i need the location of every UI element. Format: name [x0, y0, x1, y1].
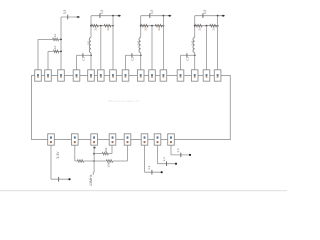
- svg-text:1k: 1k: [53, 33, 57, 37]
- label R8 (group 4): [212, 27, 216, 31]
- pin P23 (bottom row): [168, 134, 175, 145]
- wire top rail V3 (group 3): [141, 15, 170, 17]
- pin P15 (top row): [214, 70, 221, 81]
- wire pin P22 down: [157, 145, 159, 164]
- svg-text:3,3: 3,3: [203, 10, 207, 15]
- wire P21 stub: [145, 171, 163, 173]
- wire pin P16 down: [50, 145, 52, 179]
- label L3 (group 4): [190, 41, 194, 45]
- pin P10 (top row): [149, 70, 156, 81]
- label R5 (group 3): [143, 27, 147, 31]
- svg-text:22: 22: [212, 27, 216, 31]
- pin P18 (bottom row): [91, 134, 98, 145]
- wire node C to R11: [94, 153, 102, 155]
- wire pin P1 to R1: [38, 38, 53, 40]
- label L2 (group 3): [136, 41, 140, 45]
- pin P4 (top row): [73, 70, 80, 81]
- junction top rail / pin wire (group 2): [112, 15, 114, 17]
- junction coil node L3 (group 4): [194, 54, 196, 56]
- pin P9 (top row): [137, 70, 144, 81]
- wire trimmer pin up (group 4): [180, 55, 182, 70]
- wire node B to R10: [94, 160, 106, 162]
- svg-text:22: 22: [94, 27, 98, 31]
- pin P22 (bottom row): [154, 134, 161, 145]
- junction node B: [93, 160, 95, 162]
- svg-text:13MHz: 13MHz: [89, 174, 93, 186]
- label 3.3V V2 (group 2): [100, 10, 104, 15]
- svg-text:C1: C1: [82, 57, 86, 61]
- pin P16 (bottom row): [48, 134, 55, 145]
- crystal stub end: [92, 172, 95, 175]
- junction second rail left (group 3): [140, 25, 142, 27]
- svg-text:C2: C2: [131, 57, 135, 61]
- svg-text:FM stereo radio IC: FM stereo radio IC: [108, 99, 140, 103]
- pin P1 (top row): [35, 70, 42, 81]
- svg-text:C3: C3: [186, 57, 190, 61]
- svg-text:1k: 1k: [53, 45, 57, 49]
- inductor L2 (group 3): [139, 38, 141, 56]
- pin P2 (top row): [45, 70, 52, 81]
- junction R1/node-A: [60, 39, 62, 41]
- wire top rail V2 (group 2): [91, 15, 119, 17]
- supply tick V6: [151, 170, 153, 175]
- wire pin P1 up: [37, 39, 39, 69]
- wire coil to top rail L1 (group 2): [90, 16, 92, 38]
- wire second rail (group 4): [195, 25, 218, 27]
- wire coil to top rail L3 (group 4): [194, 16, 196, 38]
- wire pin to coil L3 (group 4): [194, 55, 196, 70]
- capacitor tick C2 (group 3): [131, 53, 133, 57]
- label R1 10k: [53, 33, 57, 37]
- label R3 (group 2): [94, 27, 98, 31]
- pin P5 (top row): [88, 70, 95, 81]
- wire trimmer pin up (group 3): [125, 55, 127, 70]
- pin P8 (top row): [122, 70, 129, 81]
- wire pin P2 up: [47, 51, 49, 69]
- wire right pin to top rail (group 2): [112, 16, 114, 70]
- junction second rail left (group 4): [194, 25, 196, 27]
- supply tick V2 (group 2): [99, 13, 101, 18]
- pin P20 (bottom row): [124, 134, 131, 145]
- wire trimmer pin up (group 2): [76, 55, 78, 70]
- resistor R3 (group 2): [92, 24, 99, 27]
- IC U1 part-number label: [108, 99, 140, 103]
- label 3.3V V4 (group 4): [203, 10, 207, 15]
- junction second rail middle (group 4): [206, 25, 208, 27]
- pin P17 (bottom row): [72, 134, 79, 145]
- wire trimmer branch (group 3): [126, 54, 141, 56]
- label C3 (group 4): [186, 57, 190, 61]
- label C1 (group 2): [82, 57, 86, 61]
- svg-text:3,3: 3,3: [63, 10, 67, 15]
- supply tick V5: [58, 177, 60, 182]
- svg-text:10k: 10k: [106, 162, 110, 167]
- label R10: [106, 162, 110, 167]
- inductor L1 (group 2): [89, 38, 91, 56]
- wire top rail V4 (group 4): [195, 15, 223, 17]
- junction second rail middle (group 2): [100, 25, 102, 27]
- svg-text:10k: 10k: [104, 147, 108, 152]
- supply tick V7: [166, 161, 168, 166]
- pin P14 (top row): [203, 70, 210, 81]
- label 13MHz: [89, 174, 93, 186]
- wire right pin to top rail (group 4): [217, 16, 219, 70]
- wire pin P18 down: [93, 147, 95, 173]
- endpoint node V4 (group 4): [222, 14, 226, 17]
- svg-text:3,3: 3,3: [100, 10, 104, 15]
- junction top rail / pin wire (group 4): [217, 15, 219, 17]
- svg-text:L1: L1: [86, 41, 90, 45]
- pin P11 (top row): [160, 70, 167, 81]
- pin P3 (top row): [58, 70, 65, 81]
- wire middle pin up (group 4): [206, 26, 208, 70]
- endpoint node V7: [175, 163, 177, 165]
- label V7: [162, 157, 166, 162]
- wire node A to VCC1 stub: [61, 16, 78, 18]
- supply tick V8: [180, 153, 182, 158]
- pin P7 (top row): [110, 70, 117, 81]
- wire pin P21 down: [144, 145, 146, 172]
- wire pin P2 to R2: [48, 50, 53, 52]
- wire pin P3 to node A: [60, 17, 62, 70]
- resistor R11: [102, 152, 108, 155]
- svg-text:L3: L3: [190, 41, 194, 45]
- junction coil node L2 (group 3): [140, 54, 142, 56]
- wire pin P23 down: [170, 145, 172, 155]
- svg-text:3,3: 3,3: [176, 148, 180, 153]
- resistor R2: [53, 50, 58, 53]
- wire R1 to node A: [59, 38, 61, 40]
- label 3.3V (VCC1): [63, 10, 67, 15]
- supply tick V4 (group 4): [202, 13, 204, 18]
- resistor R1: [53, 38, 59, 41]
- pin P19 (bottom row): [109, 134, 116, 145]
- label C2 (group 3): [131, 57, 135, 61]
- label R6 (group 3): [157, 27, 161, 31]
- pin P21 (bottom row): [141, 134, 148, 145]
- label V8: [176, 148, 180, 153]
- capacitor tick C3 (group 4): [186, 53, 188, 57]
- wire P23 stub: [171, 154, 190, 156]
- endpoint node V6: [161, 171, 163, 173]
- resistor R10: [106, 160, 112, 163]
- label L1 (group 2): [86, 41, 90, 45]
- junction second rail right (group 2): [112, 25, 114, 27]
- svg-text:3,3: 3,3: [147, 165, 151, 170]
- wire trimmer branch (group 2): [77, 54, 92, 56]
- resistor R6 (group 3): [155, 24, 162, 27]
- resistor R9: [77, 160, 83, 163]
- wire trimmer branch (group 4): [181, 54, 195, 56]
- junction coil node L1 (group 2): [90, 54, 92, 56]
- svg-text:3,3: 3,3: [162, 157, 166, 162]
- junction second rail middle (group 3): [151, 25, 153, 27]
- wire pin P17 down: [74, 145, 76, 161]
- wire P17 to R9: [75, 160, 78, 162]
- svg-text:22: 22: [106, 27, 110, 31]
- wire middle pin up (group 2): [100, 26, 102, 70]
- test point dot at pin P18: [93, 147, 95, 149]
- junction second rail right (group 4): [217, 25, 219, 27]
- endpoint node V5: [68, 178, 70, 180]
- resistor R7 (group 4): [195, 24, 202, 27]
- label R7 (group 4): [197, 27, 201, 31]
- label R11: [104, 147, 108, 152]
- label V6: [147, 165, 151, 170]
- wire P16 stub: [51, 178, 70, 180]
- resistor R4 (group 2): [104, 24, 111, 27]
- endpoint node V3 (group 3): [168, 14, 172, 17]
- svg-text:22: 22: [157, 27, 161, 31]
- svg-text:22: 22: [197, 27, 201, 31]
- pin P12 (top row): [177, 70, 184, 81]
- label 3.3V (V5): [56, 151, 60, 159]
- junction R2/node-A: [60, 51, 62, 53]
- wire pin to coil L1 (group 2): [90, 55, 92, 70]
- resistor R8 (group 4): [210, 24, 217, 27]
- svg-text:3,3: 3,3: [150, 10, 154, 15]
- junction second rail left (group 2): [90, 25, 92, 27]
- label 3.3V V3 (group 3): [150, 10, 154, 15]
- svg-text:22: 22: [143, 27, 147, 31]
- label R4 (group 2): [106, 27, 110, 31]
- page frame bottom border: [0, 190, 287, 192]
- supply tick V3 (group 3): [149, 13, 151, 18]
- supply tick VCC1: [67, 15, 69, 20]
- endpoint node VCC1: [77, 16, 81, 19]
- svg-text:L2: L2: [136, 41, 140, 45]
- IC U1 body: [32, 76, 231, 140]
- endpoint node V2 (group 2): [118, 14, 122, 17]
- wire R2 to node A: [59, 50, 61, 52]
- resistor R5 (group 3): [141, 24, 148, 27]
- wire pin to coil L2 (group 3): [140, 55, 142, 70]
- wire middle pin up (group 3): [151, 26, 153, 70]
- inductor L3 (group 4): [193, 38, 195, 56]
- junction top rail / pin wire (group 3): [163, 15, 165, 17]
- pin P6 (top row): [98, 70, 105, 81]
- wire right pin to top rail (group 3): [162, 16, 164, 70]
- wire coil to top rail L2 (group 3): [140, 16, 142, 38]
- wire R9 to node B: [84, 160, 94, 162]
- junction node C: [93, 153, 95, 155]
- wire R10 to pin P20 corner: [113, 145, 128, 161]
- wire P22 stub: [158, 163, 177, 165]
- capacitor tick C1 (group 2): [82, 53, 84, 57]
- wire R11 to pin P19: [108, 145, 112, 153]
- wire second rail (group 2): [91, 25, 113, 27]
- endpoint node V8: [189, 154, 191, 156]
- pin P13 (top row): [191, 70, 198, 81]
- junction second rail right (group 3): [163, 25, 165, 27]
- wire second rail (group 3): [141, 25, 164, 27]
- svg-text:3,3V: 3,3V: [56, 151, 60, 159]
- label R2 10k: [53, 45, 57, 49]
